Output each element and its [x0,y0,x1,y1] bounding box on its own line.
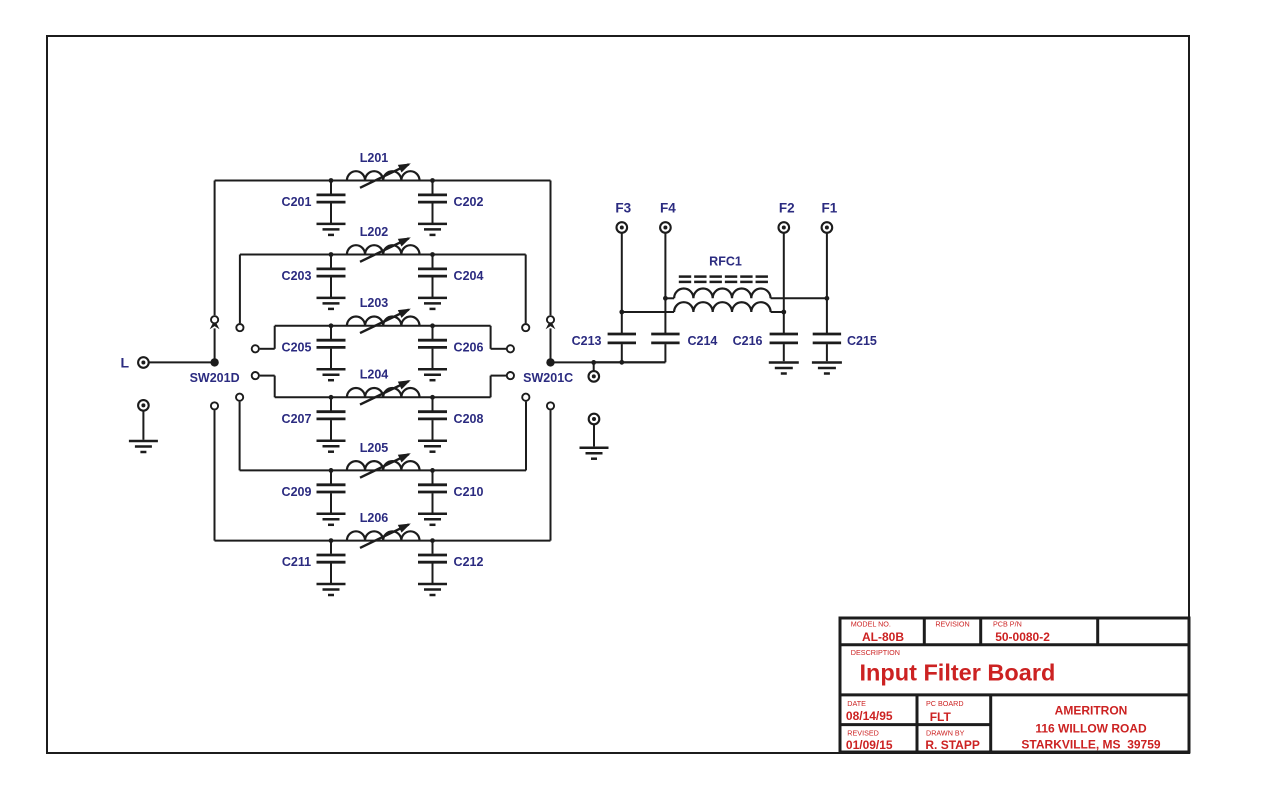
svg-text:REVISION: REVISION [935,619,969,628]
svg-text:C208: C208 [454,412,484,426]
wire F2 stem [783,233,785,313]
svg-text:MODEL NO.: MODEL NO. [851,619,891,628]
wire SW201D contact6 down [214,410,216,540]
ground terminal right [589,414,600,425]
svg-text:C206: C206 [454,340,484,354]
svg-text:08/14/95: 08/14/95 [846,709,893,723]
SW201C contact 2 [522,324,529,331]
capacitor C211 [329,538,334,543]
inductor L203 [347,316,420,325]
wire SW201C contact2 up [525,255,527,324]
wire rail band2 [240,254,526,256]
svg-text:DATE: DATE [847,699,866,708]
SW201D contact 6 [211,402,218,409]
wire SW201C wiper to C214 [551,361,666,363]
capacitor C206 [430,323,435,328]
svg-text:C203: C203 [282,269,312,283]
capacitor C212 [430,538,435,543]
capacitor C204 [430,252,435,257]
capacitor C209 [329,468,334,473]
svg-text:C212: C212 [454,555,484,569]
ground symbol left [129,440,158,443]
wire SW201C contact6 down [550,410,552,540]
svg-text:C216: C216 [733,334,763,348]
title block grid [840,618,1189,752]
svg-text:L206: L206 [360,511,389,525]
capacitor C213 [621,312,623,333]
svg-text:C215: C215 [847,334,877,348]
svg-text:F4: F4 [660,201,676,216]
wire SW201D contact3 stub [260,348,275,350]
svg-text:50-0080-2: 50-0080-2 [995,630,1050,644]
wire F4 stem [664,233,666,299]
SW201D contact 2 [236,324,243,331]
SW201D contact 1 [211,316,218,323]
node C213 bottom junction [619,360,624,365]
svg-text:DESCRIPTION: DESCRIPTION [851,648,900,657]
capacitor C208 [430,395,435,400]
capacitor C215 [826,298,828,333]
capacitor C203 [329,252,334,257]
wire rail band1 [215,180,551,182]
capacitor C214 [664,298,666,333]
svg-text:F2: F2 [779,201,795,216]
svg-text:F1: F1 [822,201,838,216]
SW201C contact 6 [547,402,554,409]
svg-text:FLT: FLT [930,710,952,724]
switch SW201C wiper [546,358,554,366]
ground symbol right [580,446,609,449]
svg-text:C214: C214 [688,334,718,348]
svg-text:STARKVILLE, MS 39759: STARKVILLE, MS 39759 [1021,737,1160,751]
svg-text:AL-80B: AL-80B [862,630,904,644]
svg-text:SW201C: SW201C [523,371,573,385]
terminal F4 [660,222,671,233]
wire rail band4 [275,396,491,398]
terminal output [589,371,600,382]
node output junction [591,360,596,365]
svg-text:C213: C213 [572,334,602,348]
svg-text:R. STAPP: R. STAPP [925,738,979,752]
svg-text:RFC1: RFC1 [709,254,742,268]
wire bottom rail [594,361,666,363]
inductor RFC1 upper winding [665,297,674,299]
terminal F1 [822,222,833,233]
svg-text:L203: L203 [360,296,389,310]
node F2 junction [781,310,786,315]
capacitor C216 [783,312,785,333]
inductor L204 [347,388,420,397]
svg-text:L204: L204 [360,368,389,382]
ground terminal left [138,400,149,411]
capacitor C207 [329,395,334,400]
wire SW201D contact1 up [214,181,216,316]
SW201C contact 3 [507,345,514,352]
svg-text:PC BOARD: PC BOARD [926,699,964,708]
svg-text:PCB P/N: PCB P/N [993,619,1022,628]
wire rail band5 [240,469,526,471]
wire F3 stem [621,233,623,313]
capacitor C201 [329,178,334,183]
svg-text:C207: C207 [282,412,312,426]
svg-text:01/09/15: 01/09/15 [846,738,893,752]
wire SW201C contact5 down [525,402,527,471]
svg-text:C201: C201 [282,195,312,209]
svg-text:L: L [121,355,130,371]
inductor L201 [347,171,420,180]
capacitor C205 [329,323,334,328]
wire SW201C contact4 stub [490,376,492,398]
svg-text:REVISED: REVISED [847,729,879,738]
capacitor C210 [430,468,435,473]
svg-text:Input Filter Board: Input Filter Board [860,659,1056,685]
node F4 junction [663,296,668,301]
inductor L205 [347,461,420,470]
capacitor C202 [430,178,435,183]
SW201D contact 3 [252,345,259,352]
SW201D contact 4 [252,372,259,379]
SW201C contact 1 [547,316,554,323]
svg-text:116 WILLOW ROAD: 116 WILLOW ROAD [1035,722,1147,736]
wire rail band3 [275,325,491,327]
SW201C contact 5 [522,394,529,401]
SW201C contact 4 [507,372,514,379]
svg-text:F3: F3 [615,201,631,216]
wire L to SW201D [150,361,215,363]
wire SW201C contact3 stub [490,326,492,349]
inductor RFC1 lower winding [622,311,674,313]
svg-text:C205: C205 [282,340,312,354]
wire SW201C contact1 up [550,181,552,316]
wire SW201D contact4 stub [260,375,275,377]
node F3 junction [619,310,624,315]
svg-text:C202: C202 [454,195,484,209]
SW201D contact 5 [236,394,243,401]
wire SW201D contact5 down [239,402,241,471]
wire rail band6 [215,540,551,542]
svg-text:C210: C210 [454,485,484,499]
ground symbol C216 [769,361,799,364]
svg-text:C204: C204 [454,269,484,283]
svg-text:DRAWN BY: DRAWN BY [926,729,965,738]
svg-text:L202: L202 [360,225,389,239]
svg-text:SW201D: SW201D [190,371,240,385]
wire F1 stem [826,233,828,299]
inductor RFC1 core [679,275,691,278]
svg-text:C209: C209 [282,485,312,499]
terminal L [138,357,149,368]
svg-text:AMERITRON: AMERITRON [1055,703,1128,717]
svg-text:C211: C211 [282,555,311,569]
inductor L202 [347,245,420,254]
ground symbol C215 [812,361,842,364]
terminal F2 [779,222,790,233]
wire stem to output terminal [593,362,595,370]
terminal F3 [617,222,628,233]
svg-text:L201: L201 [360,151,389,165]
inductor L206 [347,531,420,540]
switch SW201D wiper [210,358,218,366]
node F1 junction [825,296,830,301]
wire SW201D contact2 up [239,255,241,324]
svg-text:L205: L205 [360,441,389,455]
